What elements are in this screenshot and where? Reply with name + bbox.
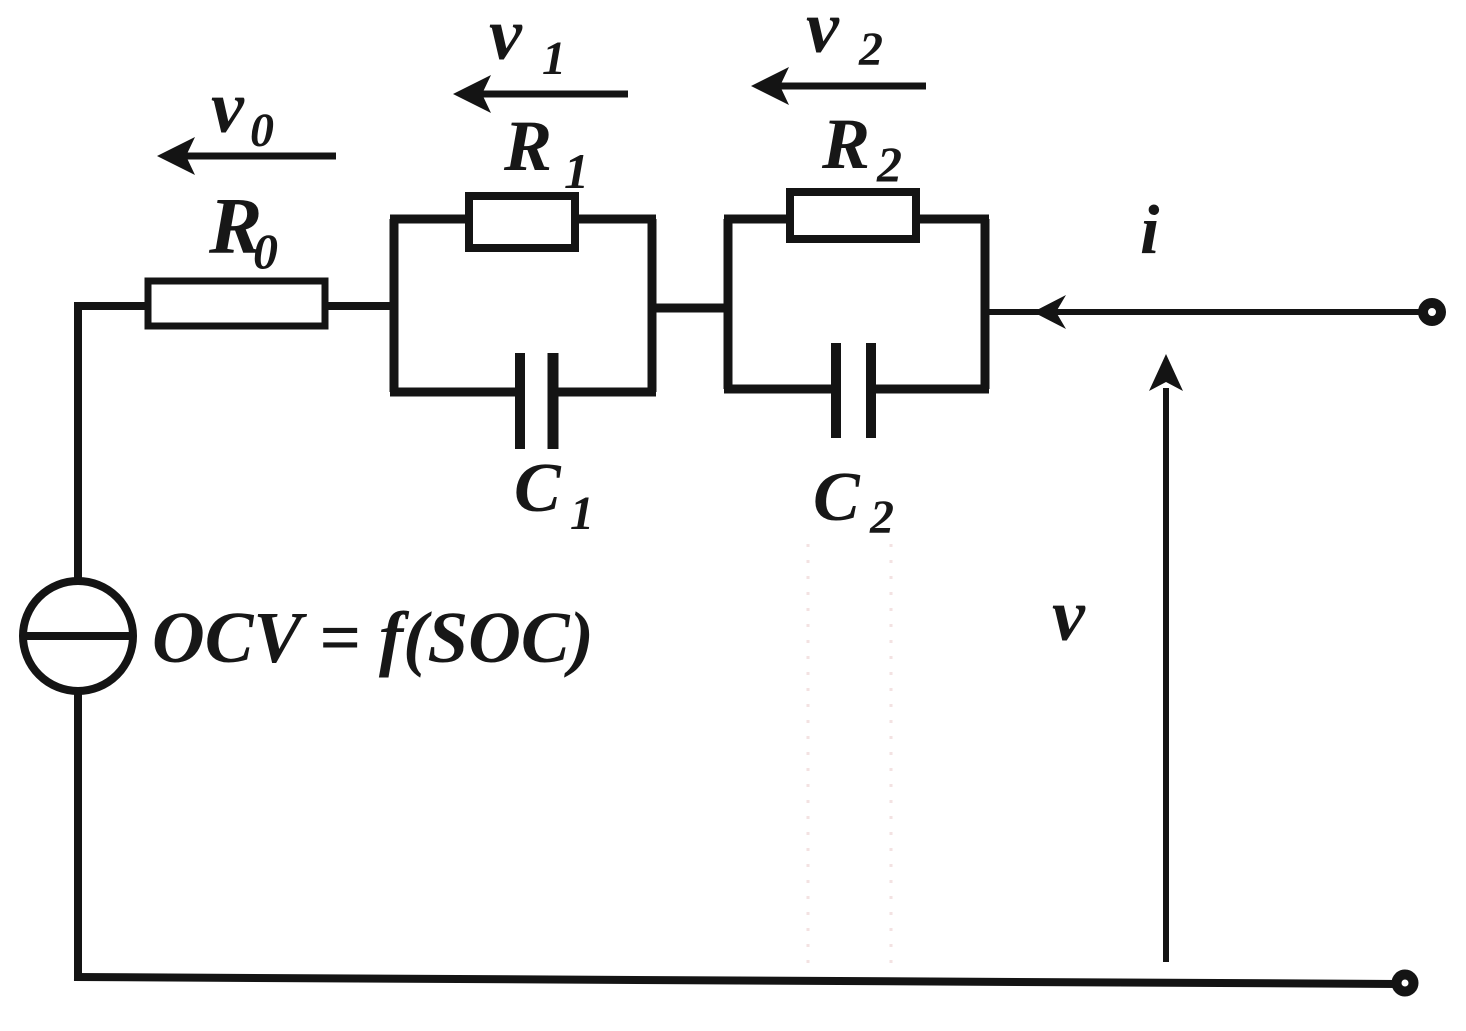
svg-text:R: R [821,104,870,184]
svg-text:1: 1 [542,32,566,85]
svg-text:OCV = f(SOC): OCV = f(SOC) [152,597,594,678]
svg-text:C: C [813,459,861,536]
svg-text:i: i [1140,192,1160,269]
svg-text:1: 1 [564,143,589,199]
svg-text:C: C [514,450,562,527]
svg-text:0: 0 [250,104,274,157]
svg-text:2: 2 [858,23,883,76]
svg-text:0: 0 [253,223,278,279]
svg-text:1: 1 [570,487,594,540]
svg-text:v: v [489,0,523,76]
svg-text:2: 2 [876,136,902,192]
svg-text:v: v [211,67,245,149]
svg-text:R: R [503,106,552,186]
svg-text:v: v [1052,575,1086,657]
svg-text:2: 2 [869,491,894,544]
svg-text:v: v [806,0,840,69]
